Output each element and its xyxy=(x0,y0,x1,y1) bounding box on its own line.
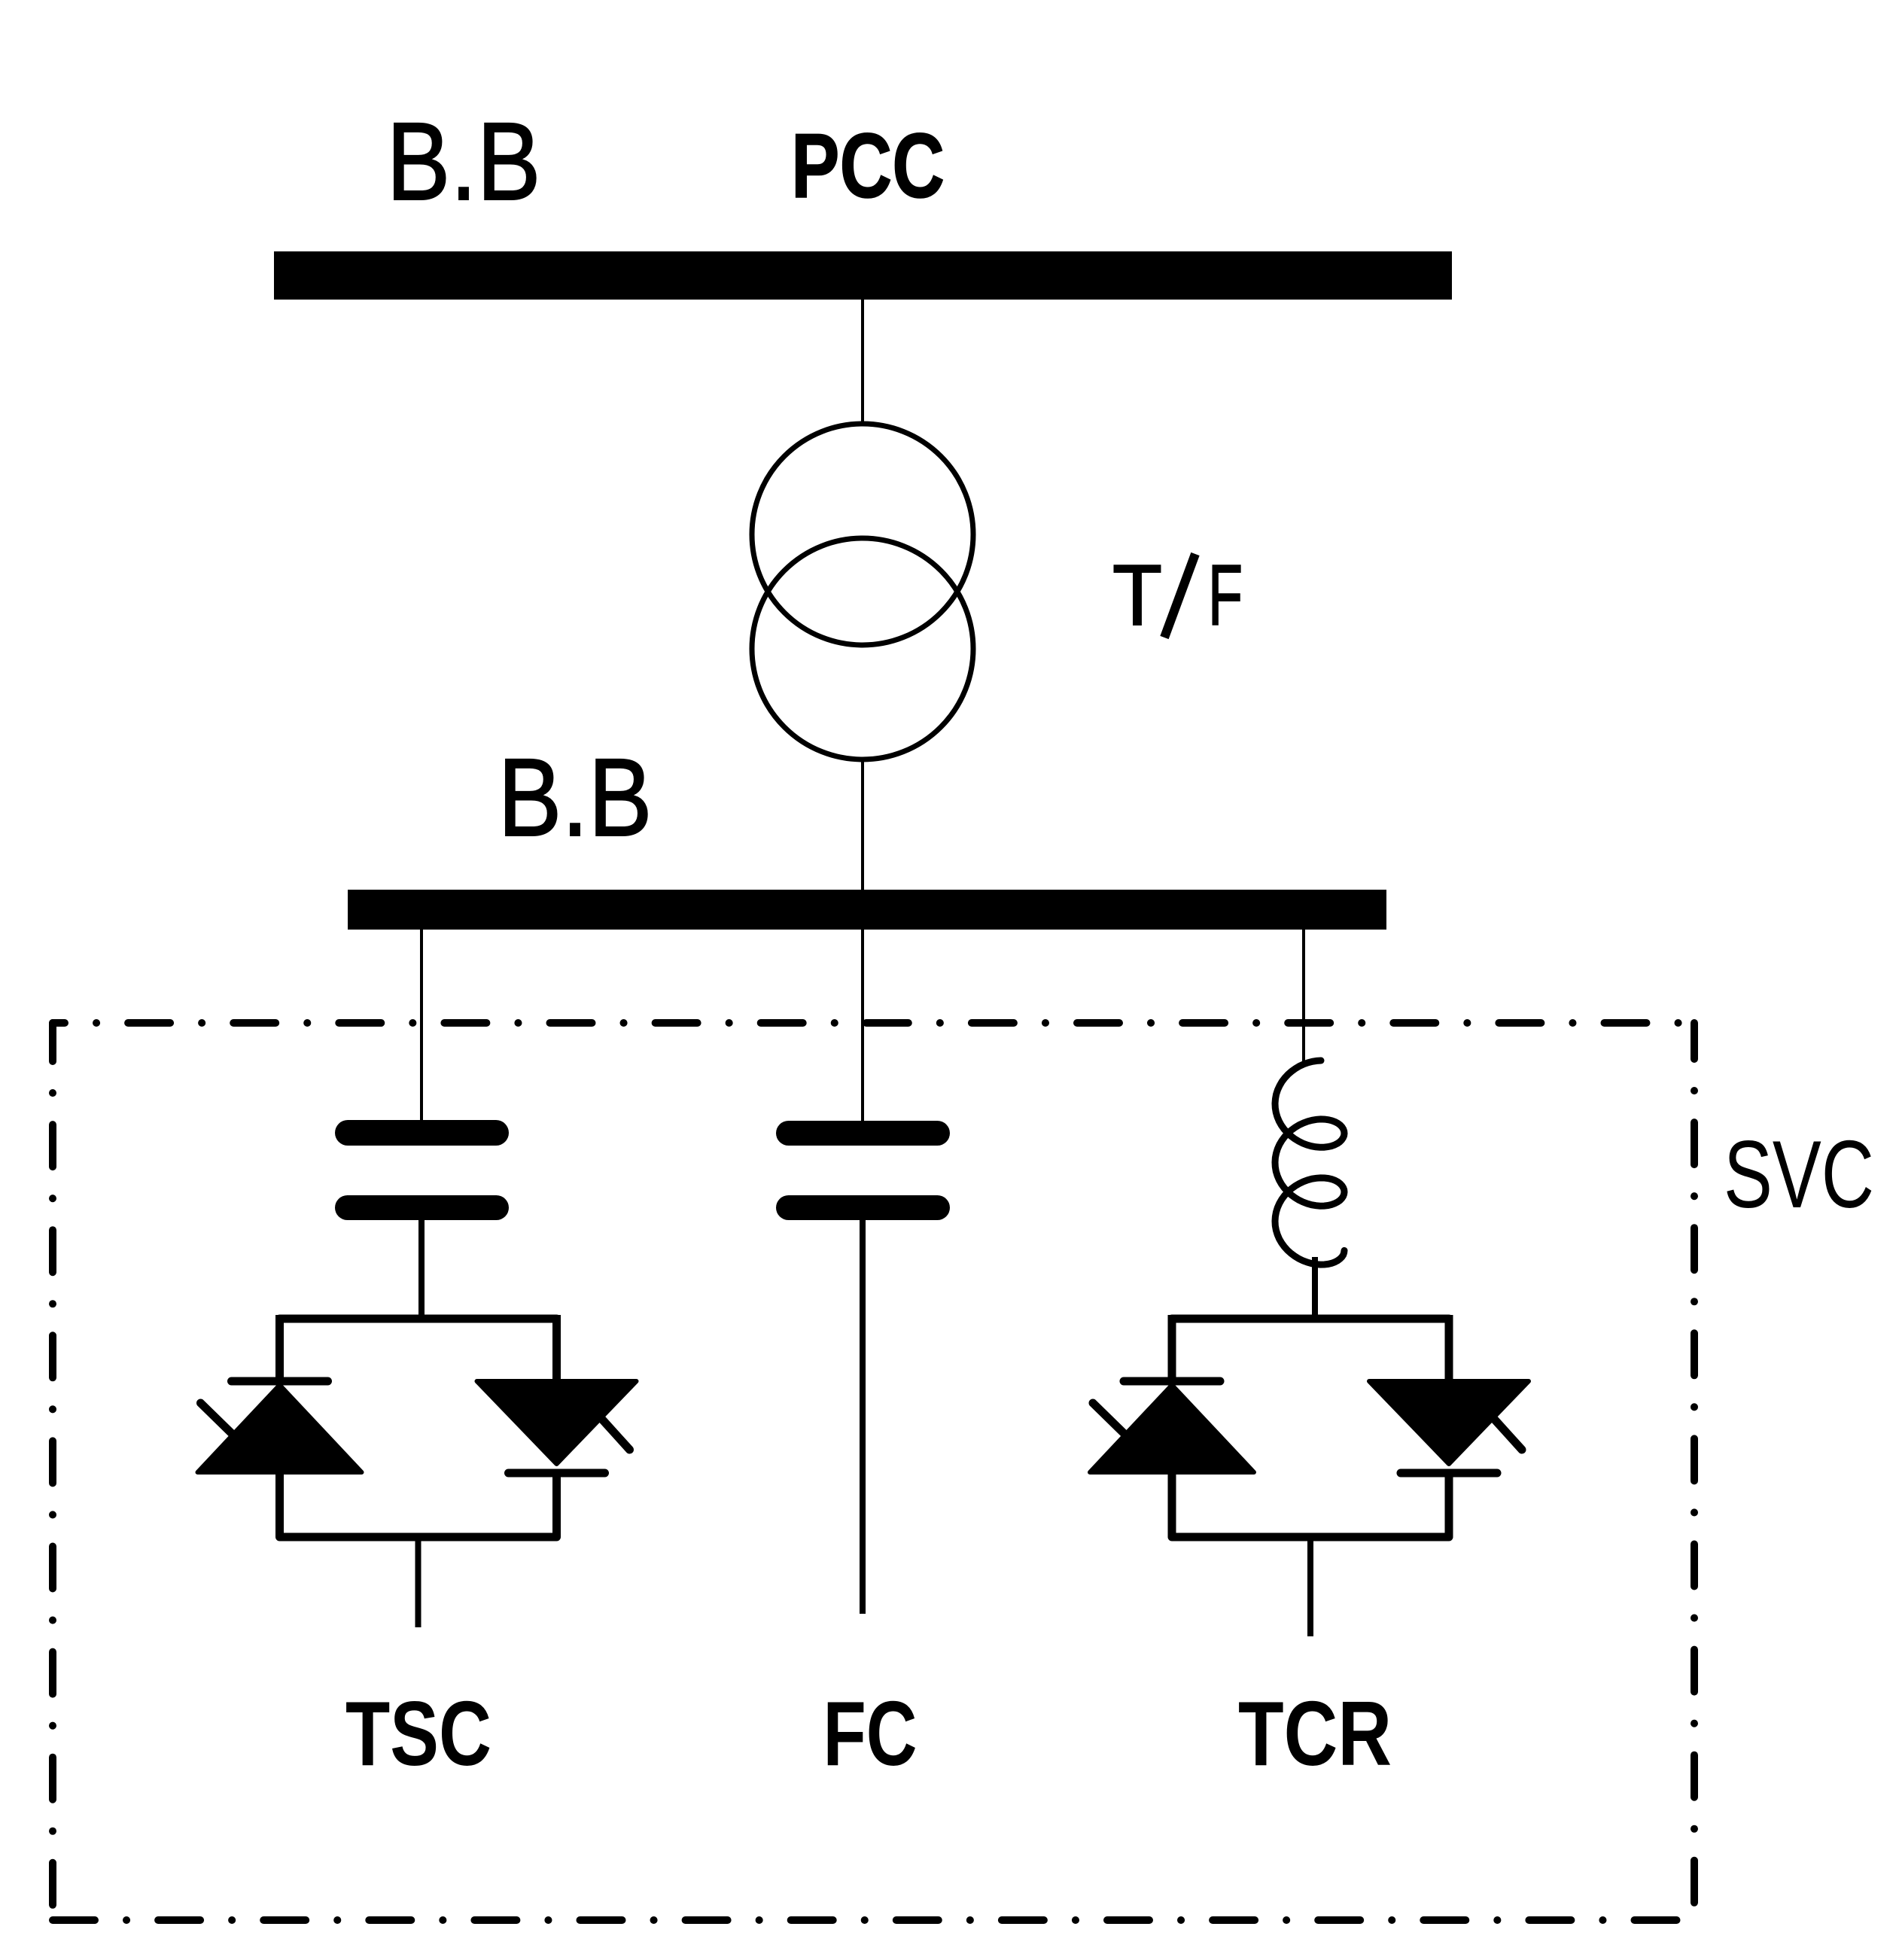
wire: right thyristor lower leg xyxy=(1445,1473,1453,1537)
wire: FC drop xyxy=(860,1219,866,1614)
wire: thyristor valve bottom rail xyxy=(1172,1533,1449,1542)
SVC enclosure bottom edge (dash-dot) xyxy=(53,1916,1694,1924)
wire: right thyristor upper leg xyxy=(1445,1315,1453,1382)
right thyristor cathode bar xyxy=(1401,1469,1497,1478)
left thyristor (conducts upward) xyxy=(1090,1385,1254,1472)
wire: thyristor valve bottom rail xyxy=(280,1533,557,1542)
capacitor FC plate 2 xyxy=(776,1195,950,1220)
wire: thyristor valve top rail xyxy=(1172,1315,1449,1323)
svg-text:TCR: TCR xyxy=(1238,1682,1392,1785)
wire: TSC capacitor to thyristor valve xyxy=(418,1219,425,1319)
right thyristor gate xyxy=(1493,1418,1522,1450)
svg-text:SVC: SVC xyxy=(1724,1121,1874,1228)
thyristor valve (TSC) xyxy=(198,1315,637,1627)
svg-text:B.B: B.B xyxy=(498,736,653,860)
transformer T/F primary winding xyxy=(752,424,973,645)
svg-text:TSC: TSC xyxy=(345,1682,491,1785)
wire: transformer to lower busbar xyxy=(861,759,864,890)
transformer T/F secondary winding xyxy=(752,538,973,759)
busbar B.B / PCC (upper) xyxy=(274,251,1452,300)
svg-text:PCC: PCC xyxy=(791,114,945,217)
thyristor valve (TCR) xyxy=(1090,1315,1529,1636)
SVC enclosure left edge (dash-dot) xyxy=(49,1023,56,1920)
wire: left thyristor lower leg xyxy=(275,1472,284,1537)
SVC enclosure right edge (dash-dot) xyxy=(1691,1023,1698,1920)
wire: lower busbar to TCR reactor xyxy=(1302,930,1305,1063)
svg-text:FC: FC xyxy=(823,1682,918,1785)
wire: upper busbar to transformer xyxy=(861,300,864,426)
left thyristor gate xyxy=(201,1403,234,1435)
right thyristor (conducts downward) xyxy=(477,1381,637,1464)
wire: left thyristor upper leg xyxy=(1168,1315,1176,1382)
busbar B.B (lower) xyxy=(348,890,1386,930)
left thyristor (conducts upward) xyxy=(198,1385,362,1472)
svg-text:B.B: B.B xyxy=(387,100,541,224)
reactor L (TCR) xyxy=(1275,1061,1344,1265)
wire: TCR bottom stub xyxy=(1307,1537,1313,1636)
capacitor FC plate 1 xyxy=(776,1121,950,1146)
left thyristor gate xyxy=(1093,1403,1126,1435)
right thyristor cathode bar xyxy=(509,1469,605,1478)
SVC enclosure top edge (dash-dot) xyxy=(53,1019,1694,1027)
wire: right thyristor upper leg xyxy=(552,1315,561,1382)
wire: reactor to thyristor valve xyxy=(1312,1257,1318,1319)
wire: right thyristor lower leg xyxy=(552,1473,561,1537)
left thyristor cathode bar xyxy=(232,1377,328,1386)
wire: lower busbar to FC capacitor xyxy=(861,930,864,1122)
right thyristor (conducts downward) xyxy=(1369,1381,1529,1464)
left thyristor cathode bar xyxy=(1124,1377,1220,1386)
svg-text:F: F xyxy=(1208,548,1243,644)
wire: left thyristor upper leg xyxy=(275,1315,284,1382)
wire: thyristor valve top rail xyxy=(280,1315,557,1323)
capacitor TSC plate 1 xyxy=(335,1120,509,1146)
svg-text:T: T xyxy=(1112,548,1162,644)
wire: left thyristor lower leg xyxy=(1168,1472,1176,1537)
capacitor TSC plate 2 xyxy=(335,1195,509,1220)
wire: lower busbar to TSC capacitor xyxy=(420,930,423,1122)
right thyristor gate xyxy=(601,1418,630,1450)
wire: TSC bottom stub xyxy=(415,1537,421,1627)
